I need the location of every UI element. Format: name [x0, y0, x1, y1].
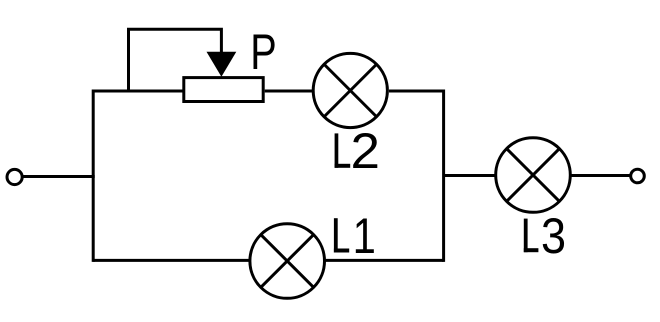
svg-text:3: 3: [541, 209, 566, 265]
wire: middle node to lamp L3: [444, 174, 497, 177]
wire: potentiometer to lamp L2: [265, 90, 313, 93]
label L2 : letter L: [335, 133, 351, 167]
lamp L1: [250, 224, 325, 299]
potentiometer wiper arrowhead: [207, 52, 237, 77]
lamp L3: [496, 138, 571, 213]
left terminal: [7, 169, 22, 184]
wire: lamp L2 to right vertical bus: [389, 90, 445, 93]
wire: left terminal to left node: [23, 175, 94, 178]
wire: wiper loop over the top: [129, 29, 222, 91]
wire: top branch left segment: [93, 90, 183, 93]
label L1 : letter L: [334, 218, 349, 252]
svg-text:2: 2: [351, 122, 380, 178]
right terminal: [631, 169, 645, 183]
wire: left vertical bus: [92, 90, 95, 262]
wire: bottom branch right segment: [324, 259, 444, 262]
svg-text:1: 1: [353, 208, 376, 264]
wire: bottom branch left segment: [93, 259, 250, 262]
wire: right vertical bus: [442, 90, 445, 262]
svg-text:P: P: [250, 24, 276, 81]
lamp L2: [313, 53, 387, 127]
wire: lamp L3 to right terminal: [570, 174, 631, 177]
potentiometer P body: [184, 78, 263, 102]
label L3 : letter L: [524, 219, 539, 253]
